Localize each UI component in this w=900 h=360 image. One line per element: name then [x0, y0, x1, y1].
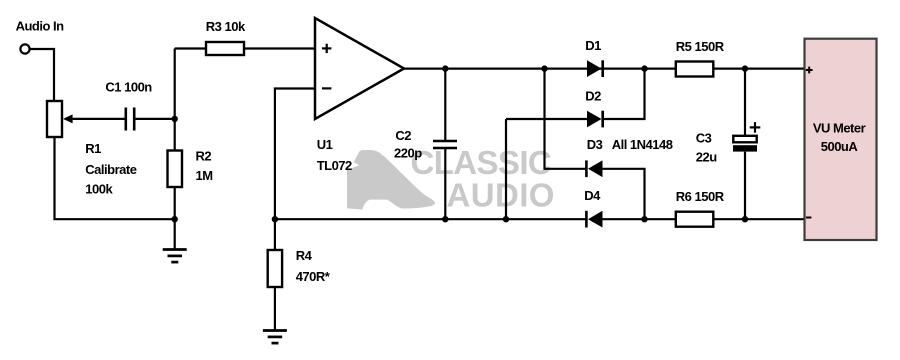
svg-text:VU Meter: VU Meter	[813, 121, 866, 136]
wire C2 column	[444, 69, 446, 220]
svg-text:R3 10k: R3 10k	[206, 19, 246, 34]
diode D4	[586, 211, 602, 228]
resistor R6	[676, 212, 714, 227]
junction node C	[641, 216, 647, 222]
resistor R2	[168, 151, 183, 188]
wire bottom rail	[275, 218, 805, 220]
potentiometer R1 wiper arrow	[63, 114, 126, 123]
wire R3 row to op-amp + input	[175, 47, 315, 49]
wire node A vertical (R3 left down to R2 top)	[174, 49, 176, 151]
junction feedback node	[272, 216, 278, 222]
wire op-amp output rail (top rail)	[404, 67, 805, 69]
svg-text:TL072: TL072	[317, 158, 352, 173]
junction C3 bottom	[742, 216, 748, 222]
svg-text:Calibrate: Calibrate	[85, 162, 136, 177]
capacitor C1	[126, 108, 134, 131]
label R2 1M	[196, 149, 213, 184]
wire C1 right plate to node A	[134, 118, 175, 120]
svg-text:C2: C2	[395, 128, 411, 143]
svg-text:500uA: 500uA	[821, 139, 859, 154]
resistor R5	[676, 62, 714, 77]
svg-text:D3: D3	[587, 137, 603, 152]
svg-text:C1 100n: C1 100n	[105, 79, 152, 94]
ground 2	[263, 331, 287, 344]
junction C3 top	[742, 65, 748, 71]
junction node A	[172, 116, 178, 122]
capacitor C2	[433, 141, 457, 148]
svg-text:D1: D1	[585, 38, 601, 53]
wire op-amp inverting input and feedback column	[275, 89, 315, 251]
svg-text:22u: 22u	[696, 150, 717, 165]
svg-text:D4: D4	[584, 188, 601, 203]
wire R4 bottom to ground 2	[274, 287, 276, 331]
VU meter + terminal label	[806, 67, 813, 74]
svg-text:CLASSIC: CLASSIC	[411, 144, 552, 181]
svg-text:AUDIO: AUDIO	[447, 177, 555, 214]
resistor R3	[206, 42, 244, 55]
junction R2 bottom node	[172, 216, 178, 222]
svg-text:Audio In: Audio In	[16, 18, 65, 33]
svg-text:1M: 1M	[196, 168, 213, 183]
svg-text:D2: D2	[585, 89, 601, 104]
svg-text:100k: 100k	[85, 182, 113, 197]
wire R1 bottom to ground rail and to node at R2 bottom	[55, 137, 175, 219]
diode D2	[587, 111, 603, 128]
VU meter - terminal label	[806, 217, 811, 219]
wire input terminal to R1 top	[30, 49, 54, 101]
svg-text:C3: C3	[696, 131, 712, 146]
wire D2 anode branch	[506, 119, 587, 219]
svg-text:R5 150R: R5 150R	[676, 39, 725, 54]
ground 1	[163, 250, 187, 263]
wire D2 cathode up to node B	[603, 69, 645, 119]
input terminal (open circle)	[20, 44, 29, 53]
label R1 Calibrate 100k	[85, 141, 136, 197]
junction C2 bottom	[442, 216, 448, 222]
potentiometer R1 body	[47, 101, 62, 137]
svg-text:470R*: 470R*	[296, 269, 331, 284]
junction D2 branch to bottom rail	[503, 216, 509, 222]
diode D3	[586, 160, 602, 177]
resistor R4	[268, 250, 282, 287]
diode D1	[587, 60, 603, 77]
junction node B	[641, 65, 647, 71]
wire C3 column	[744, 69, 746, 220]
junction C2 top	[442, 65, 448, 71]
capacitor C3 (polarized)	[733, 122, 760, 151]
wire to ground 1	[174, 219, 176, 249]
label VU Meter 500uA	[813, 121, 866, 155]
op-amp U1	[315, 18, 404, 119]
svg-text:220p: 220p	[394, 146, 422, 161]
svg-text:U1: U1	[317, 137, 333, 152]
VU meter box	[805, 39, 877, 240]
junction output rail / D3 branch	[541, 65, 547, 71]
wire D3 anode to node C	[603, 169, 645, 219]
label C3 22u	[696, 131, 717, 165]
wire R2 bottom to ground node	[174, 187, 176, 219]
label C2 220p	[394, 128, 422, 161]
label R4 470R*	[296, 248, 331, 284]
svg-text:R6 150R: R6 150R	[676, 189, 725, 204]
svg-text:All 1N4148: All 1N4148	[612, 137, 673, 152]
svg-text:R2: R2	[196, 149, 212, 164]
label U1 TL072	[317, 137, 352, 173]
wire branch from output rail down to D3 cathode	[545, 69, 587, 169]
svg-text:R1: R1	[85, 141, 101, 156]
svg-text:R4: R4	[296, 248, 313, 263]
